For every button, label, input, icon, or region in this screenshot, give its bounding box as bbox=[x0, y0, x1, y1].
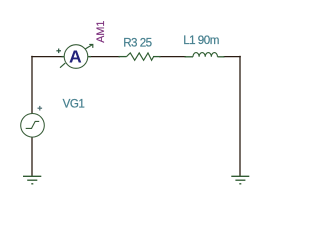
ground left bbox=[23, 176, 41, 184]
ammeter arrow tail bbox=[60, 63, 65, 68]
inductor L1 coil arcs bbox=[193, 53, 217, 57]
wire resistor to inductor bbox=[159, 56, 186, 58]
ammeter arrow head segment bbox=[85, 44, 92, 49]
wire inductor to right corner bbox=[224, 56, 241, 58]
ammeter plus sign bbox=[56, 49, 61, 54]
voltage generator VG1 plus sign bbox=[38, 106, 43, 111]
ammeter AM1 lead stubs bbox=[62, 56, 92, 58]
wire left vertical upper bbox=[31, 56, 33, 114]
svg-text:VG1: VG1 bbox=[63, 98, 85, 111]
ammeter AM1 circle bbox=[64, 45, 88, 69]
wire right vertical bbox=[239, 56, 241, 176]
wire left vertical lower bbox=[31, 137, 33, 176]
resistor R3 lead stubs bbox=[119, 56, 161, 58]
ground right bbox=[231, 176, 249, 184]
svg-text:R3 25: R3 25 bbox=[123, 37, 151, 50]
voltage generator VG1 circle bbox=[21, 114, 45, 138]
svg-text:AM1: AM1 bbox=[95, 21, 107, 43]
wire top-left horizontal bbox=[31, 56, 64, 58]
inductor L1 lead stubs bbox=[185, 56, 225, 58]
svg-text:A: A bbox=[69, 47, 82, 67]
svg-text:L1 90m: L1 90m bbox=[183, 34, 219, 47]
voltage generator VG1 waveform symbol bbox=[26, 121, 40, 128]
resistor R3 zigzag bbox=[127, 53, 154, 60]
wire ammeter to resistor bbox=[89, 56, 121, 58]
